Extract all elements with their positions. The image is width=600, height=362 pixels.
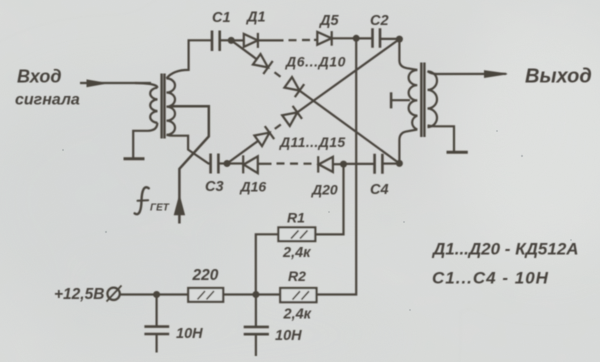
transformer T1 secondary winding xyxy=(167,78,176,134)
svg-text:+12,5В: +12,5В xyxy=(54,286,104,303)
diode D1 xyxy=(233,39,244,41)
junction dot 2 xyxy=(252,291,259,298)
transformer T2 secondary winding xyxy=(428,71,438,127)
svg-text:С3: С3 xyxy=(205,179,224,195)
diagonal chain D11..D15: node C to node B xyxy=(227,141,258,164)
wire secondary top to C1 rail xyxy=(167,40,212,78)
f gen arrowhead xyxy=(175,197,185,215)
wire C3 to node C xyxy=(218,162,226,164)
transformer T1 primary bottom lead xyxy=(133,123,157,158)
diode D16 xyxy=(229,162,243,164)
svg-text:Д11...Д15: Д11...Д15 xyxy=(279,134,346,150)
diode D6 xyxy=(253,54,268,68)
svg-text:Выход: Выход xyxy=(525,66,592,88)
resistor 220 xyxy=(188,288,223,302)
capacitor C4 xyxy=(375,154,383,174)
svg-text:2,4к: 2,4к xyxy=(282,245,311,261)
svg-text:С1...С4 - 10Н: С1...С4 - 10Н xyxy=(432,269,549,288)
wire C4 to node E xyxy=(382,163,397,165)
svg-text:С2: С2 xyxy=(370,13,389,29)
svg-text:R1: R1 xyxy=(287,210,305,226)
dash xyxy=(275,72,281,76)
svg-text:Д1: Д1 xyxy=(245,10,266,26)
junction dot 1 xyxy=(153,291,160,298)
capacitor C2 xyxy=(373,28,381,47)
node A xyxy=(228,37,235,44)
wire node E up to T2 primary bottom xyxy=(399,130,417,164)
svg-text:10Н: 10Н xyxy=(176,326,203,342)
transformer T2 core xyxy=(421,63,424,138)
wire to node B xyxy=(297,39,399,112)
svg-text:С1: С1 xyxy=(212,10,231,26)
svg-text:Д20: Д20 xyxy=(311,182,338,198)
svg-text:220: 220 xyxy=(192,267,219,284)
node B xyxy=(396,36,403,43)
wire C1 to node A xyxy=(220,39,229,41)
svg-text:2,4к: 2,4к xyxy=(283,307,312,323)
+12.5V terminal xyxy=(107,288,119,300)
wire to node E xyxy=(300,91,400,164)
paper specks xyxy=(62,130,572,311)
node top right xyxy=(353,35,360,42)
ground (right) xyxy=(447,151,468,154)
input arrowhead xyxy=(87,80,106,87)
diode D15 xyxy=(282,112,297,126)
svg-text:Д1...Д20 - КД512А: Д1...Д20 - КД512А xyxy=(431,240,579,259)
output arrowhead xyxy=(485,71,508,78)
vertical node D to R1 xyxy=(315,164,343,234)
label f get xyxy=(135,187,149,214)
bottom supply wire xyxy=(120,293,188,295)
transformer T1 core xyxy=(162,74,165,139)
input arrow line xyxy=(80,82,151,84)
capacitor C1 xyxy=(212,31,220,52)
wire node to C2 xyxy=(356,37,372,39)
capacitor C3 xyxy=(211,154,219,174)
svg-text:10Н: 10Н xyxy=(275,328,302,344)
dashed wire top rail xyxy=(289,39,311,41)
svg-text:Д5: Д5 xyxy=(318,13,339,29)
wire 220 to R2 xyxy=(223,293,280,295)
svg-text:Д6...Д10: Д6...Д10 xyxy=(285,54,346,70)
T2 primary center tap with stub xyxy=(391,99,410,101)
diode D5 xyxy=(314,39,317,41)
T2 secondary bottom to ground xyxy=(428,126,455,152)
capacitor 10n (right) xyxy=(255,295,257,327)
transformer T2 primary winding xyxy=(409,70,418,130)
svg-text:Вход: Вход xyxy=(17,67,61,87)
transformer T1 primary winding xyxy=(135,83,157,88)
wire C2 to node B xyxy=(380,38,397,40)
node E xyxy=(396,160,403,167)
wire secondary center tap to f gen xyxy=(171,106,209,223)
diode D10 xyxy=(284,77,299,91)
diode D20 xyxy=(317,156,319,172)
svg-text:С4: С4 xyxy=(370,182,389,198)
R1 left lead and vertical xyxy=(256,234,279,293)
wire secondary bottom to C3 xyxy=(167,135,211,164)
diagonal chain D6..D10: node A to node E xyxy=(231,40,257,59)
svg-text:ГЕТ: ГЕТ xyxy=(150,203,170,214)
dash xyxy=(275,125,281,129)
svg-text:сигнала: сигнала xyxy=(15,92,80,109)
capacitor 10n (left) xyxy=(156,295,158,327)
wire node B down to T2 primary top xyxy=(399,39,417,70)
resistor R1 xyxy=(278,227,315,241)
ground (left) xyxy=(124,157,145,160)
vertical node B to R2 xyxy=(316,38,356,294)
output wire xyxy=(428,71,507,74)
wire node D to C4 xyxy=(344,163,375,165)
diode D11 xyxy=(254,133,269,147)
dashed wire bottom rail xyxy=(277,162,312,164)
svg-text:Д16: Д16 xyxy=(240,179,267,195)
node C xyxy=(224,160,231,167)
svg-text:R2: R2 xyxy=(288,268,306,284)
node D xyxy=(340,161,347,168)
resistor R2 xyxy=(280,288,316,302)
